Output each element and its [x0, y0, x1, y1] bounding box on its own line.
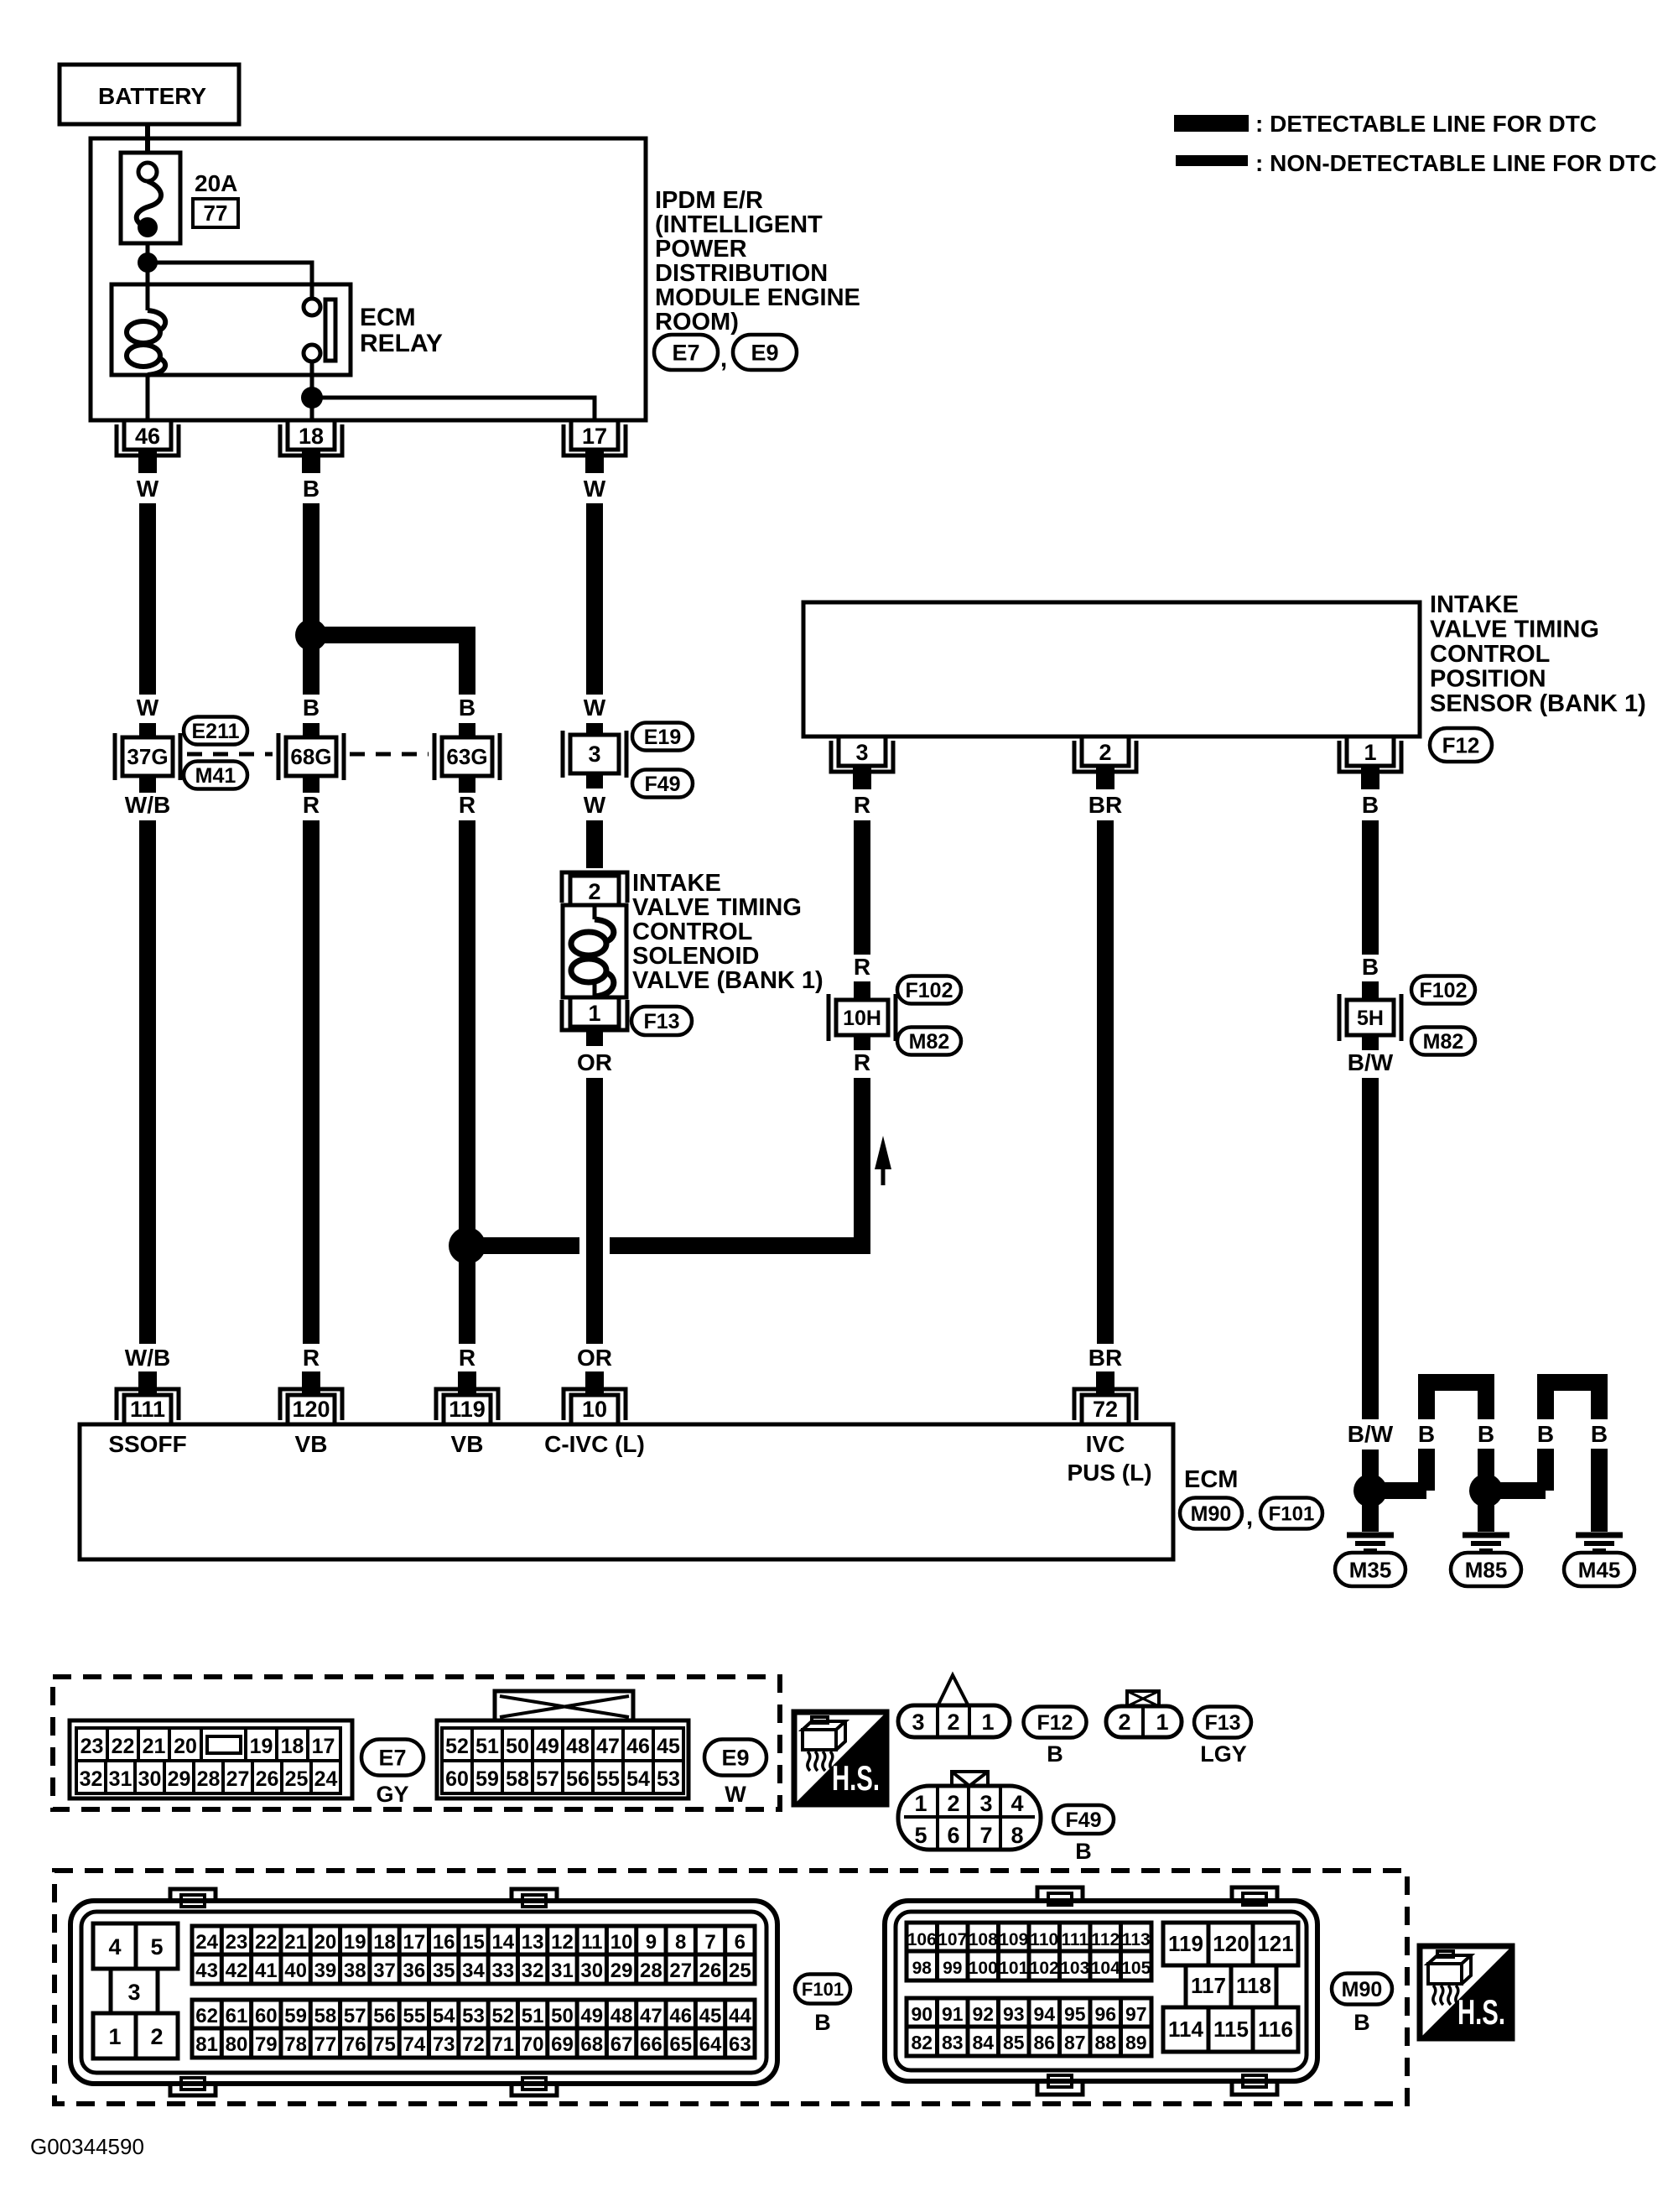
junction dot B wire branch — [295, 619, 327, 651]
svg-text:80: 80 — [226, 2033, 248, 2056]
sensor pin 3 — [831, 736, 893, 789]
connector face F101 — [70, 1889, 777, 2095]
ground M85 — [1451, 1491, 1521, 1586]
svg-text:VALVE (BANK 1): VALVE (BANK 1) — [632, 967, 824, 994]
svg-text:21: 21 — [284, 1931, 307, 1954]
svg-text:46: 46 — [626, 1735, 650, 1758]
svg-text:25: 25 — [729, 1960, 751, 1982]
svg-text:4: 4 — [1011, 1791, 1023, 1816]
solenoid valve pin 1 — [562, 997, 627, 1030]
connector 5H — [1339, 994, 1401, 1041]
connector face F13 — [1106, 1691, 1182, 1737]
svg-text:20: 20 — [314, 1931, 337, 1954]
wire BR from sensor pin 2 to ECM — [1088, 792, 1122, 1388]
svg-text:R: R — [459, 792, 475, 818]
svg-text:B: B — [1537, 1421, 1554, 1447]
svg-text:2: 2 — [588, 879, 600, 904]
svg-text:79: 79 — [255, 2033, 278, 2056]
svg-text:57: 57 — [536, 1767, 559, 1791]
svg-text:44: 44 — [729, 2005, 751, 2027]
IPDM pin 17 — [564, 420, 626, 473]
svg-text:47: 47 — [596, 1735, 620, 1758]
svg-text:W: W — [137, 476, 159, 502]
svg-text:22: 22 — [255, 1931, 278, 1954]
svg-text:M90: M90 — [1191, 1502, 1232, 1526]
dashed box ECM connectors — [55, 1871, 1407, 2104]
svg-text:VB: VB — [295, 1431, 328, 1457]
connector label E7 GY — [361, 1740, 423, 1808]
svg-text:102: 102 — [1030, 1959, 1059, 1978]
svg-text:E9: E9 — [721, 1746, 749, 1771]
svg-text:60: 60 — [445, 1767, 469, 1791]
ECM pin 111 SSOFF — [108, 1371, 186, 1457]
svg-text:24: 24 — [314, 1767, 338, 1791]
sensor label text — [1430, 591, 1646, 717]
wire relay to pins 18 and 17 — [312, 362, 595, 420]
svg-text:93: 93 — [1003, 2003, 1025, 2025]
svg-text:E9: E9 — [751, 341, 778, 366]
svg-text:89: 89 — [1125, 2032, 1147, 2053]
svg-text:120: 120 — [292, 1397, 330, 1422]
svg-text:31: 31 — [551, 1960, 574, 1982]
svg-text:57: 57 — [344, 2005, 366, 2027]
svg-text:106: 106 — [907, 1930, 937, 1949]
svg-text:51: 51 — [475, 1735, 499, 1758]
svg-text:M90: M90 — [1342, 1978, 1383, 2001]
svg-text:15: 15 — [462, 1931, 485, 1954]
wire W from pin 17 — [584, 476, 606, 735]
svg-text:1: 1 — [1364, 740, 1376, 765]
connector 63G — [434, 733, 500, 780]
svg-text:112: 112 — [1091, 1930, 1120, 1949]
ECM pin 119 VB — [436, 1371, 498, 1457]
svg-text:GY: GY — [376, 1782, 408, 1807]
sensor pin 1 — [1339, 736, 1401, 789]
svg-text:117: 117 — [1191, 1973, 1226, 1998]
svg-text:28: 28 — [197, 1767, 221, 1791]
harness dashed link 37G-68G — [187, 752, 273, 757]
wire branch to 63G — [311, 635, 475, 737]
svg-text:96: 96 — [1094, 2003, 1116, 2025]
svg-text:14: 14 — [491, 1931, 514, 1954]
svg-text:ROOM): ROOM) — [655, 309, 739, 336]
svg-text:27: 27 — [226, 1767, 250, 1791]
svg-text:66: 66 — [640, 2033, 662, 2056]
svg-text:12: 12 — [551, 1931, 574, 1954]
connector label M90 — [1180, 1498, 1253, 1532]
svg-text:W: W — [584, 695, 606, 721]
svg-text:77: 77 — [314, 2033, 337, 2056]
svg-text:115: 115 — [1213, 2017, 1249, 2042]
svg-text:16: 16 — [433, 1931, 455, 1954]
svg-text:W: W — [137, 695, 159, 721]
svg-text:87: 87 — [1064, 2032, 1086, 2053]
svg-text:100: 100 — [969, 1959, 998, 1978]
dashed box E7 E9 connectors — [53, 1677, 780, 1809]
svg-text:105: 105 — [1121, 1959, 1151, 1978]
connector label M90 B — [1332, 1974, 1392, 2036]
svg-text:IPDM E/R: IPDM E/R — [655, 187, 763, 214]
svg-text:M45: M45 — [1578, 1557, 1621, 1582]
svg-text:W: W — [584, 476, 606, 502]
svg-text:56: 56 — [566, 1767, 590, 1791]
connector labels F102 M82 right — [1411, 976, 1475, 1055]
svg-text:VB: VB — [451, 1431, 484, 1457]
svg-text:1: 1 — [981, 1710, 994, 1735]
svg-text:F13: F13 — [1204, 1711, 1240, 1735]
svg-text:91: 91 — [942, 2003, 964, 2025]
figure number — [30, 2134, 144, 2159]
connector label F12 B — [1024, 1707, 1087, 1767]
view icon H.S. bottom — [1420, 1946, 1512, 2038]
view icon H.S. top — [794, 1712, 886, 1804]
svg-text:68: 68 — [580, 2033, 603, 2056]
svg-text:104: 104 — [1091, 1959, 1120, 1978]
ground M35 — [1335, 1491, 1405, 1586]
svg-text:18: 18 — [281, 1735, 304, 1758]
svg-text:VALVE TIMING: VALVE TIMING — [1430, 617, 1599, 643]
svg-text:ECM: ECM — [1184, 1466, 1238, 1493]
sensor pin 2 — [1074, 736, 1136, 789]
svg-text:49: 49 — [536, 1735, 559, 1758]
svg-text:POWER: POWER — [655, 236, 747, 263]
svg-text:F49: F49 — [644, 773, 680, 796]
svg-text:25: 25 — [285, 1767, 309, 1791]
junction dot ground 1 — [1353, 1474, 1387, 1507]
svg-text:M82: M82 — [909, 1030, 950, 1054]
svg-text:E19: E19 — [644, 726, 681, 749]
svg-text:35: 35 — [433, 1960, 455, 1982]
svg-text:97: 97 — [1125, 2003, 1147, 2025]
wire relay coil to pin 46 — [146, 375, 150, 420]
svg-text:H.S.: H.S. — [832, 1758, 880, 1798]
svg-text:119: 119 — [449, 1397, 486, 1422]
svg-text:SOLENOID: SOLENOID — [632, 943, 759, 970]
wire R from 68G to ECM — [303, 776, 320, 1388]
svg-text:2: 2 — [1099, 740, 1111, 765]
junction dot ground 2 — [1469, 1474, 1503, 1507]
legend detectable line — [1174, 111, 1597, 137]
svg-text:27: 27 — [669, 1960, 692, 1982]
svg-text:21: 21 — [143, 1735, 166, 1758]
ground staple link 2 — [1486, 1382, 1608, 1491]
connector label F101 — [1260, 1498, 1322, 1529]
svg-text:8: 8 — [675, 1931, 686, 1954]
ECM box — [80, 1424, 1173, 1559]
legend non-detectable line — [1176, 150, 1657, 176]
svg-text:54: 54 — [433, 2005, 455, 2027]
svg-text:54: 54 — [626, 1767, 650, 1791]
svg-text:B: B — [1362, 792, 1379, 818]
svg-text:B/W: B/W — [1348, 1049, 1394, 1075]
svg-text:: DETECTABLE LINE FOR DTC: : DETECTABLE LINE FOR DTC — [1255, 111, 1597, 137]
svg-text:68G: 68G — [290, 744, 331, 769]
svg-text:55: 55 — [596, 1767, 620, 1791]
svg-text:PUS (L): PUS (L) — [1067, 1460, 1151, 1486]
svg-text:RELAY: RELAY — [360, 330, 443, 357]
svg-text:109: 109 — [999, 1930, 1028, 1949]
svg-text:32: 32 — [80, 1767, 103, 1791]
svg-text:120: 120 — [1213, 1931, 1249, 1956]
connector labels F102 M82 left — [897, 976, 961, 1055]
battery — [60, 65, 239, 153]
svg-text:29: 29 — [168, 1767, 191, 1791]
svg-text:65: 65 — [669, 2033, 692, 2056]
svg-text:B/W: B/W — [1348, 1421, 1394, 1447]
svg-text:85: 85 — [1003, 2032, 1025, 2053]
svg-text:IVC: IVC — [1086, 1431, 1125, 1457]
ECM label — [1184, 1466, 1238, 1493]
svg-text:20A: 20A — [195, 170, 237, 196]
svg-text:48: 48 — [610, 2005, 633, 2027]
svg-text:52: 52 — [491, 2005, 514, 2027]
svg-text:50: 50 — [551, 2005, 574, 2027]
IPDM label text — [655, 187, 860, 336]
svg-text:108: 108 — [969, 1930, 998, 1949]
svg-text:119: 119 — [1168, 1931, 1203, 1956]
svg-text:60: 60 — [255, 2005, 278, 2027]
svg-text:(INTELLIGENT: (INTELLIGENT — [655, 211, 823, 238]
svg-text:W: W — [584, 792, 606, 818]
svg-text:121: 121 — [1257, 1931, 1293, 1956]
svg-text:103: 103 — [1060, 1959, 1089, 1978]
svg-text:2: 2 — [947, 1710, 959, 1735]
svg-text:43: 43 — [195, 1960, 218, 1982]
wire W from pin 46 — [137, 476, 159, 737]
solenoid valve label — [632, 870, 824, 994]
svg-text:94: 94 — [1033, 2003, 1055, 2025]
svg-text:OR: OR — [577, 1345, 612, 1371]
svg-text:8: 8 — [1011, 1823, 1023, 1848]
svg-text:F13: F13 — [643, 1010, 679, 1033]
wire B from sensor pin 1 — [1362, 792, 1379, 1001]
ECM pin 10 C-IVC — [544, 1371, 645, 1457]
svg-text:E7: E7 — [672, 341, 699, 366]
svg-text:53: 53 — [462, 2005, 485, 2027]
svg-text:10: 10 — [582, 1397, 607, 1422]
fuse 20A 77 — [121, 153, 238, 284]
svg-text:M41: M41 — [195, 764, 236, 788]
connector 3 E19/F49 — [563, 731, 626, 778]
svg-text:101: 101 — [999, 1959, 1028, 1978]
connector label F49 B — [1053, 1805, 1114, 1864]
svg-text:111: 111 — [1061, 1930, 1088, 1949]
svg-text:62: 62 — [195, 2005, 218, 2027]
svg-text:83: 83 — [942, 2032, 964, 2053]
svg-text:56: 56 — [373, 2005, 396, 2027]
svg-text:23: 23 — [81, 1735, 104, 1758]
svg-text:99: 99 — [943, 1959, 962, 1978]
svg-text:98: 98 — [912, 1959, 933, 1978]
svg-text:51: 51 — [522, 2005, 544, 2027]
svg-text:5H: 5H — [1357, 1007, 1384, 1030]
wire horizontal run to junction — [467, 1237, 579, 1254]
svg-text:33: 33 — [491, 1960, 514, 1982]
svg-text:B: B — [814, 2010, 831, 2035]
svg-text:19: 19 — [250, 1735, 273, 1758]
svg-text:POSITION: POSITION — [1430, 666, 1546, 693]
svg-text:81: 81 — [195, 2033, 218, 2056]
svg-text:63: 63 — [729, 2033, 751, 2056]
svg-text:2: 2 — [947, 1791, 959, 1816]
connector 10H — [829, 994, 896, 1041]
svg-text:F101: F101 — [802, 1979, 844, 2000]
svg-text:84: 84 — [972, 2032, 994, 2053]
svg-text:M85: M85 — [1465, 1557, 1508, 1582]
svg-text:F101: F101 — [1269, 1503, 1315, 1526]
svg-text:W/B: W/B — [125, 792, 170, 818]
svg-text:10: 10 — [610, 1931, 633, 1954]
svg-text:R: R — [854, 954, 870, 980]
svg-text:36: 36 — [403, 1960, 426, 1982]
svg-text:82: 82 — [911, 2032, 933, 2053]
svg-text:B: B — [1353, 2010, 1370, 2035]
svg-text:7: 7 — [704, 1931, 715, 1954]
signal direction arrow — [875, 1136, 891, 1185]
svg-text:18: 18 — [299, 424, 324, 449]
svg-text:5: 5 — [914, 1823, 927, 1848]
svg-text:H.S.: H.S. — [1457, 1992, 1505, 2032]
svg-text:,: , — [1246, 1503, 1253, 1531]
svg-text:63G: 63G — [446, 744, 487, 769]
svg-text:M35: M35 — [1349, 1557, 1392, 1582]
svg-text:113: 113 — [1122, 1930, 1151, 1949]
svg-text:ECM: ECM — [360, 304, 416, 331]
junction dot fuse output — [138, 252, 158, 273]
svg-text:F12: F12 — [1442, 732, 1480, 757]
svg-text:W/B: W/B — [125, 1345, 170, 1371]
svg-text:E7: E7 — [378, 1746, 406, 1771]
wire R from 63G to ECM — [459, 776, 475, 1388]
svg-text:74: 74 — [403, 2033, 426, 2056]
svg-text:: NON-DETECTABLE LINE FOR DTC: : NON-DETECTABLE LINE FOR DTC — [1255, 150, 1657, 176]
svg-text:40: 40 — [284, 1960, 307, 1982]
svg-text:3: 3 — [979, 1791, 992, 1816]
svg-text:R: R — [854, 1049, 870, 1075]
ECM pin 72 IVC PUS — [1067, 1371, 1151, 1486]
connector label E9 W — [704, 1740, 766, 1808]
wire W from connector 3 to solenoid — [584, 773, 606, 868]
connector 37G — [115, 733, 180, 780]
svg-text:B: B — [1478, 1421, 1494, 1447]
svg-text:67: 67 — [610, 2033, 633, 2056]
svg-text:86: 86 — [1033, 2032, 1055, 2053]
svg-text:7: 7 — [979, 1823, 992, 1848]
svg-text:76: 76 — [344, 2033, 366, 2056]
svg-text:B: B — [1047, 1741, 1063, 1767]
svg-text:23: 23 — [226, 1931, 248, 1954]
svg-text:B: B — [1075, 1839, 1092, 1864]
connector labels E19 F49 — [632, 723, 693, 798]
svg-text:26: 26 — [256, 1767, 279, 1791]
solenoid valve coil L1 — [563, 905, 626, 997]
svg-text:118: 118 — [1236, 1973, 1271, 1998]
svg-text:41: 41 — [255, 1960, 278, 1982]
connector label F13 LGY — [1194, 1707, 1251, 1767]
svg-text:INTAKE: INTAKE — [632, 870, 721, 897]
svg-text:SSOFF: SSOFF — [108, 1431, 186, 1457]
svg-text:58: 58 — [314, 2005, 337, 2027]
svg-text:92: 92 — [972, 2003, 994, 2025]
svg-text:3: 3 — [912, 1710, 924, 1735]
svg-text:R: R — [854, 792, 870, 818]
ground M45 — [1564, 1491, 1634, 1586]
svg-text:77: 77 — [204, 200, 228, 226]
svg-text:31: 31 — [109, 1767, 132, 1791]
connector label F101 B — [795, 1975, 850, 2036]
wire OR from solenoid to ECM — [577, 1027, 612, 1388]
svg-text:B: B — [1418, 1421, 1435, 1447]
svg-text:59: 59 — [475, 1767, 499, 1791]
svg-text:3: 3 — [855, 740, 868, 765]
connector label E7 — [654, 335, 727, 372]
svg-text:30: 30 — [580, 1960, 603, 1982]
svg-text:42: 42 — [226, 1960, 248, 1982]
svg-text:3: 3 — [588, 742, 600, 767]
svg-text:45: 45 — [699, 2005, 722, 2027]
svg-text:39: 39 — [314, 1960, 337, 1982]
wire R from 10H down — [610, 1035, 870, 1246]
connector label F12 — [1430, 728, 1492, 762]
svg-text:1: 1 — [588, 1001, 600, 1026]
svg-text:1: 1 — [914, 1791, 927, 1816]
svg-text:28: 28 — [640, 1960, 662, 1982]
svg-text:53: 53 — [657, 1767, 680, 1791]
wire W/B from 37G to ECM — [125, 776, 170, 1388]
svg-text:F102: F102 — [906, 979, 953, 1002]
svg-text:INTAKE: INTAKE — [1430, 591, 1519, 618]
junction dot R wire to 10H branch — [449, 1227, 486, 1264]
svg-text:CONTROL: CONTROL — [632, 919, 752, 945]
connector face M90 — [885, 1887, 1317, 2095]
svg-text:CONTROL: CONTROL — [1430, 641, 1550, 668]
svg-text:17: 17 — [312, 1735, 335, 1758]
svg-text:1: 1 — [1156, 1710, 1168, 1735]
svg-text:72: 72 — [462, 2033, 485, 2056]
svg-text:24: 24 — [195, 1931, 218, 1954]
svg-text:34: 34 — [462, 1960, 485, 1982]
wire fuse to relay contact — [148, 263, 312, 299]
svg-text:110: 110 — [1030, 1930, 1058, 1949]
svg-text:73: 73 — [433, 2033, 455, 2056]
svg-text:38: 38 — [344, 1960, 366, 1982]
svg-text:55: 55 — [403, 2005, 426, 2027]
connector face F49 — [898, 1772, 1041, 1850]
svg-text:B: B — [459, 695, 475, 721]
svg-text:C-IVC (L): C-IVC (L) — [544, 1431, 645, 1457]
svg-text:B: B — [1362, 954, 1379, 980]
svg-text:75: 75 — [373, 2033, 396, 2056]
svg-text:DISTRIBUTION: DISTRIBUTION — [655, 260, 828, 287]
svg-text:R: R — [303, 792, 320, 818]
svg-text:88: 88 — [1094, 2032, 1116, 2053]
svg-text:1: 1 — [108, 2024, 121, 2049]
connector labels E211 M41 — [184, 717, 247, 789]
svg-text:72: 72 — [1093, 1397, 1118, 1422]
connector face E7 — [70, 1720, 352, 1798]
svg-text:B: B — [1591, 1421, 1608, 1447]
ECM pin 120 VB — [280, 1371, 342, 1457]
svg-text:G00344590: G00344590 — [30, 2134, 144, 2159]
svg-text:20: 20 — [174, 1735, 197, 1758]
svg-text:61: 61 — [226, 2005, 248, 2027]
svg-text:LGY: LGY — [1200, 1741, 1247, 1767]
svg-text:70: 70 — [522, 2033, 544, 2056]
svg-text:17: 17 — [403, 1931, 426, 1954]
svg-text:BR: BR — [1088, 792, 1122, 818]
svg-text:9: 9 — [646, 1931, 657, 1954]
ECM relay U1 — [112, 284, 443, 375]
